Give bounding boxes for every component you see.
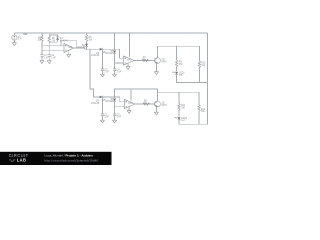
wire row2 feed <box>94 96 115 98</box>
LED LED2 <box>175 117 188 122</box>
CircuitLab logo <box>9 153 29 163</box>
wire U2 output <box>134 60 154 62</box>
resistor R1 <box>37 33 43 46</box>
svg-text:OA3: OA3 <box>128 102 133 105</box>
capacitor C5 <box>101 97 110 120</box>
wire load1 left branch <box>176 46 178 60</box>
wire load2 bottom <box>179 121 208 125</box>
resistor R7 <box>142 57 149 62</box>
ground below C3 <box>100 74 104 77</box>
svg-text:OA1: OA1 <box>68 46 73 49</box>
svg-text:http://circuitlab.com/c5ywsnuk: http://circuitlab.com/c5ywsnuk39d40 <box>45 158 99 162</box>
wire Q2 emitter <box>155 107 157 112</box>
resistor R12 <box>198 105 206 125</box>
op-amp U3 <box>124 99 134 108</box>
resistor R9 <box>175 60 183 71</box>
resistor R10 <box>198 61 206 83</box>
wire node B horizontal to op-amp - <box>42 49 64 51</box>
wire connector row1 to row2 <box>90 49 94 97</box>
wire op-amp2 + input elbow <box>120 49 124 58</box>
wire load2 top <box>158 92 200 104</box>
resistor R5 <box>85 33 93 44</box>
svg-text:1N4148: 1N4148 <box>77 47 86 49</box>
svg-text:Luca_Mizrahi / Projeto 1 - Ard: Luca_Mizrahi / Projeto 1 - Arduino <box>45 154 94 158</box>
wire Q1 collector riser <box>157 46 159 58</box>
transistor Q1 <box>154 58 166 64</box>
capacitor C4 <box>113 69 122 74</box>
ground below C1 <box>40 61 44 64</box>
wire top rail <box>14 32 207 34</box>
svg-text:1N4148: 1N4148 <box>105 53 114 55</box>
wire U3 output <box>135 103 155 105</box>
svg-text:1N4148: 1N4148 <box>91 103 100 105</box>
wire node A horizontal to op-amp + <box>42 45 64 47</box>
svg-text:LAB: LAB <box>17 158 26 163</box>
wire op-amp3 + input elbow <box>115 97 125 102</box>
transistor Q2 <box>154 101 166 107</box>
wire op-amp3 - input <box>115 105 125 107</box>
svg-text:OA2: OA2 <box>127 59 132 62</box>
wire right rail <box>207 33 209 124</box>
wire load2 left branch <box>178 92 180 103</box>
wire U1 feedback bridge <box>61 40 76 48</box>
capacitor C1 <box>40 46 49 61</box>
diode D1 <box>56 37 68 43</box>
capacitor C3 <box>101 49 110 74</box>
diode D6 <box>105 97 116 114</box>
ground below U3 <box>127 106 131 113</box>
resistor R8 <box>143 101 150 106</box>
resistor R11 <box>178 104 186 117</box>
ground below C4 <box>113 74 117 77</box>
op-amp U2 <box>123 56 134 65</box>
voltage source V1 <box>12 35 22 41</box>
ground below C5 <box>100 120 104 123</box>
ground below Q2 <box>154 112 158 115</box>
ground below U2 <box>126 63 130 69</box>
wire Q1 emitter <box>155 63 157 71</box>
resistor R2 <box>48 33 56 46</box>
diode D2 <box>77 44 88 50</box>
svg-text:1 uF: 1 uF <box>117 72 122 74</box>
svg-text:1 uF: 1 uF <box>51 57 56 59</box>
wire D1 parallel loop <box>49 35 57 42</box>
diode D5 <box>105 33 116 69</box>
wire load1 top <box>158 46 200 61</box>
wire load1 bottom <box>177 75 208 82</box>
svg-text:5 V: 5 V <box>18 39 22 41</box>
svg-text:1 uF: 1 uF <box>44 57 49 59</box>
ground below C6 <box>113 120 117 123</box>
wire U2 pull-up bridge <box>129 33 131 57</box>
svg-text:1 uF: 1 uF <box>104 117 109 119</box>
wire U3 feedback bridge <box>115 89 158 97</box>
LED LED1 <box>172 72 185 77</box>
svg-text:1N4148: 1N4148 <box>105 101 114 103</box>
svg-text:NPN: NPN <box>162 61 167 63</box>
ground below U1 <box>67 50 71 57</box>
ground below V1 <box>12 40 16 45</box>
wire row1 signal <box>85 48 120 49</box>
wire U3 power pin <box>130 89 132 101</box>
svg-text:NPN: NPN <box>162 105 167 107</box>
diode D4 <box>91 96 105 105</box>
wire source top <box>13 33 15 35</box>
junction dots <box>41 32 208 124</box>
op-amp U1 <box>64 43 73 52</box>
svg-text:1N4148: 1N4148 <box>91 55 100 57</box>
ground below Q1 <box>154 72 158 75</box>
wire op-amp2 - input <box>115 62 124 64</box>
capacitor C2 <box>48 46 57 61</box>
wire Q2 collector riser <box>157 92 159 101</box>
wire U1 output <box>73 47 85 49</box>
svg-text:1 uF: 1 uF <box>117 117 122 119</box>
svg-text:1 uF: 1 uF <box>104 72 109 74</box>
diode D3 <box>91 48 105 57</box>
footer bar <box>0 152 112 165</box>
ground below C2 <box>47 61 51 64</box>
capacitor C6 <box>113 114 122 120</box>
